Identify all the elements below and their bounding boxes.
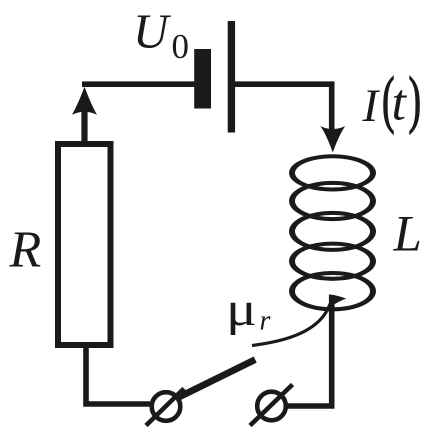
wire from switch right terminal up to coil bottom	[287, 295, 332, 406]
battery V1 negative plate (short thick)	[194, 49, 211, 109]
switch S1 left terminal circle	[152, 392, 181, 421]
svg-text:U: U	[133, 4, 172, 59]
wire arrow shaft from resistor top	[81, 112, 87, 146]
switch S1 lever blade	[176, 360, 256, 399]
svg-text:μ: μ	[226, 283, 257, 336]
inductor L coil turn 2	[289, 181, 376, 221]
wire from resistor bottom to switch left terminal	[86, 346, 150, 405]
current arrowhead I(t) pointing down into coil	[320, 126, 345, 153]
label I(t)	[362, 66, 422, 135]
label mu_r	[226, 283, 271, 336]
inductor L coil turn 3	[289, 211, 376, 252]
svg-text:): )	[409, 66, 422, 135]
svg-text:0: 0	[172, 27, 190, 66]
wire from battery to top-right corner and down to coil	[235, 84, 332, 129]
inductor L coil turn 5	[289, 271, 376, 311]
inductor L coil turn 1	[289, 154, 376, 191]
switch S1 right terminal circle	[257, 392, 286, 421]
resistor R body	[58, 144, 111, 345]
svg-text:I: I	[362, 80, 381, 132]
leader arrowhead pointing into coil	[329, 294, 346, 307]
inductor L coil turn 4	[289, 242, 376, 281]
battery V1 positive plate (long thin)	[228, 21, 235, 133]
svg-text:r: r	[260, 306, 271, 337]
svg-text:R: R	[9, 222, 42, 279]
wire from up-arrow node to battery negative plate	[82, 81, 195, 87]
switch S1 left terminal slash	[146, 389, 184, 426]
up arrowhead on resistor branch	[72, 87, 97, 115]
switch S1 right terminal slash	[250, 385, 293, 426]
svg-text:t: t	[392, 75, 408, 132]
leader curve from mu_r to coil core	[252, 300, 333, 346]
svg-text:L: L	[393, 207, 422, 263]
label U0	[133, 4, 189, 67]
